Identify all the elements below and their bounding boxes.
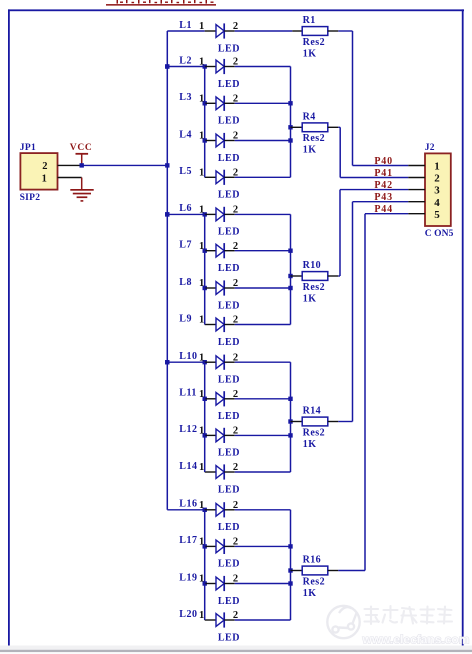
R14 pin 2 stub <box>328 421 339 423</box>
svg-text:1K: 1K <box>303 293 317 304</box>
svg-text:1K: 1K <box>303 588 317 599</box>
LED L20 symbol <box>216 614 224 627</box>
L17 pin 1 stub <box>205 545 216 547</box>
svg-text:LED: LED <box>218 79 240 90</box>
resistor R14 <box>288 202 408 450</box>
svg-text:1: 1 <box>199 94 205 105</box>
wire R14 to riser corner <box>338 421 352 423</box>
svg-text:1K: 1K <box>303 145 317 156</box>
svg-text:J2: J2 <box>425 143 435 153</box>
svg-text:1: 1 <box>199 426 205 437</box>
LED L10 row <box>165 351 240 386</box>
L19 pin 2 stub <box>224 583 235 585</box>
wire L4 cathode to bus <box>235 140 291 142</box>
svg-text:LED: LED <box>218 375 240 386</box>
LED L12 row <box>179 424 240 459</box>
L4 pin 1 stub <box>205 140 216 142</box>
wire net P42 to J2 pin 3 <box>340 189 408 191</box>
junction anode bus top L16 <box>203 508 207 512</box>
wire VCC to left bus <box>80 164 167 166</box>
L11 pin 1 stub <box>205 398 216 400</box>
junction anode bus L19 <box>203 581 207 585</box>
junction cathode bus L4 <box>288 138 292 142</box>
svg-text:2: 2 <box>42 161 48 172</box>
wire L19 cathode to bus <box>235 583 291 585</box>
svg-text:1: 1 <box>199 57 205 68</box>
wire anode bus group 1 <box>204 67 206 178</box>
wire net P44 to J2 pin 5 <box>365 213 408 215</box>
junction left bus group 2 <box>165 212 169 216</box>
svg-text:Res2: Res2 <box>303 427 326 438</box>
svg-text:4: 4 <box>434 197 440 209</box>
LED L3 symbol <box>216 97 224 110</box>
svg-text:P40: P40 <box>374 156 393 167</box>
svg-text:R1: R1 <box>303 15 316 26</box>
svg-text:1: 1 <box>199 462 205 473</box>
svg-text:R16: R16 <box>303 555 321 566</box>
L11 pin 2 stub <box>224 398 235 400</box>
junction left bus group 1 <box>165 64 169 68</box>
junction anode bus top L10 <box>203 360 207 364</box>
svg-text:1: 1 <box>199 389 205 400</box>
svg-text:LED: LED <box>218 337 240 348</box>
wire R1 riser to net P40 <box>352 31 354 166</box>
R10 pin 1 stub <box>291 275 303 277</box>
R14 pin 1 stub <box>291 421 303 423</box>
wire L3 cathode to bus <box>235 102 291 104</box>
L16 pin 1 stub <box>205 509 216 511</box>
svg-text:1: 1 <box>199 205 205 216</box>
svg-text:1: 1 <box>42 173 48 184</box>
L20 pin 2 stub <box>224 619 235 621</box>
wire L2 cathode to bus <box>235 66 291 68</box>
svg-text:L1: L1 <box>179 20 192 31</box>
wire R4 riser to net P41 <box>339 127 341 177</box>
L10 pin 2 stub <box>224 361 235 363</box>
wire anode bus group 4 <box>204 510 206 620</box>
wire L17 cathode to bus <box>235 545 291 547</box>
junction cathode bus L19 <box>288 581 292 585</box>
svg-text:1: 1 <box>199 574 205 585</box>
R16 pin 2 stub <box>328 570 339 572</box>
svg-text:1: 1 <box>199 537 205 548</box>
LED L5 row <box>179 166 240 201</box>
svg-text:1: 1 <box>199 500 205 511</box>
L19 pin 1 stub <box>205 583 216 585</box>
svg-text:1: 1 <box>199 168 205 179</box>
resistor R4 <box>288 111 408 177</box>
svg-text:2: 2 <box>434 173 440 185</box>
junction cathode bus L7 <box>288 249 292 253</box>
frame left border <box>8 9 10 646</box>
L8 pin 2 stub <box>224 287 235 289</box>
wire bus to L1 anode <box>167 30 204 32</box>
L4 pin 2 stub <box>224 140 235 142</box>
L5 pin 2 stub <box>224 176 235 178</box>
wire L6 cathode to bus <box>235 213 291 215</box>
svg-text:LED: LED <box>218 632 240 643</box>
LED L2 symbol <box>216 60 224 73</box>
junction cathode bus L11 <box>288 397 292 401</box>
watermark logo circle <box>327 606 359 638</box>
svg-text:www.elecfans.com: www.elecfans.com <box>362 633 470 647</box>
junction anode bus L3 <box>203 101 207 105</box>
svg-text:3: 3 <box>434 185 440 197</box>
wire L5 cathode to bus <box>235 176 291 178</box>
svg-text:LED: LED <box>218 300 240 311</box>
L14 pin 1 stub <box>205 471 216 473</box>
wire net P43 to J2 pin 4 <box>353 201 409 203</box>
wire L16 cathode to bus <box>235 509 291 511</box>
junction anode bus L17 <box>203 544 207 548</box>
svg-text:L11: L11 <box>179 388 197 399</box>
svg-text:1: 1 <box>199 241 205 252</box>
svg-text:LED: LED <box>218 227 240 238</box>
L7 pin 1 stub <box>205 250 216 252</box>
junction VCC/JP1 pin2 <box>80 163 84 167</box>
L8 pin 1 stub <box>205 287 216 289</box>
LED L2 row <box>165 55 240 90</box>
svg-text:P41: P41 <box>374 168 393 179</box>
svg-text:LED: LED <box>218 190 240 201</box>
svg-text:L10: L10 <box>179 351 197 362</box>
L3 pin 1 stub <box>205 102 216 104</box>
watermark chinese text strokes <box>365 606 453 624</box>
LED L14 row <box>179 461 240 496</box>
wire bus to L16 anode <box>167 509 204 511</box>
connector JP1 body <box>20 153 57 190</box>
wire cathode bus group 4 <box>290 510 292 620</box>
wire bus to L6 anode <box>167 213 204 215</box>
junction left bus L6 <box>165 212 169 216</box>
junction anode bus L8 <box>203 286 207 290</box>
svg-text:5: 5 <box>434 209 440 221</box>
JP1 pin 2 stub <box>58 164 81 166</box>
LED L8 symbol <box>216 282 224 295</box>
wire net P41 to J2 pin 2 <box>340 177 408 179</box>
title text (clipped bottom fragments) <box>117 0 214 4</box>
svg-text:LED: LED <box>218 43 240 54</box>
svg-text:P44: P44 <box>374 204 393 215</box>
svg-text:1: 1 <box>199 21 205 32</box>
resistor R10 <box>288 190 408 305</box>
wire bus to L10 anode <box>167 361 204 363</box>
VCC stem <box>81 154 83 166</box>
wire L9 cathode to bus <box>235 324 291 326</box>
L2 pin 2 stub <box>224 66 235 68</box>
wire L10 cathode to bus <box>235 361 291 363</box>
L3 pin 2 stub <box>224 102 235 104</box>
JP1 pin 1 stub <box>58 177 82 179</box>
svg-text:SIP2: SIP2 <box>20 193 41 203</box>
svg-text:1: 1 <box>199 610 205 621</box>
wire net P40 to J2 pin 1 <box>353 165 409 167</box>
L16 pin 2 stub <box>224 509 235 511</box>
wire L11 cathode to bus <box>235 398 291 400</box>
R10 pin 2 stub <box>328 275 339 277</box>
wire cathode bus group 3 <box>290 362 292 472</box>
svg-text:1K: 1K <box>303 439 317 450</box>
R1 pin 1 stub <box>292 30 302 32</box>
svg-text:L5: L5 <box>179 166 192 177</box>
svg-text:1: 1 <box>199 131 205 142</box>
junction left bus L2 <box>165 64 169 68</box>
junction anode bus L4 <box>203 138 207 142</box>
svg-text:LED: LED <box>218 411 240 422</box>
junction anode bus top L6 <box>203 212 207 216</box>
LED L8 row <box>179 277 240 312</box>
resistor R1 <box>235 15 409 165</box>
LED L9 symbol <box>216 318 224 331</box>
ground stem <box>81 178 83 190</box>
LED L1 symbol <box>216 25 224 38</box>
svg-text:JP1: JP1 <box>20 143 36 153</box>
LED L1 row <box>167 20 240 55</box>
svg-text:R10: R10 <box>303 260 321 271</box>
LED L11 symbol <box>216 392 224 405</box>
LED L9 row <box>179 313 240 348</box>
junction left bus L10 <box>165 360 169 364</box>
R4 pin 1 stub <box>291 126 303 128</box>
wire bus to L2 anode <box>167 66 204 68</box>
L17 pin 2 stub <box>224 545 235 547</box>
junction anode bus L11 <box>203 397 207 401</box>
frame right border <box>462 9 464 648</box>
wire R16 to riser corner <box>338 570 365 572</box>
svg-text:Res2: Res2 <box>303 576 326 587</box>
svg-text:P42: P42 <box>374 180 393 191</box>
LED L6 symbol <box>216 208 224 221</box>
L1 pin 1 stub <box>205 30 216 32</box>
svg-text:L16: L16 <box>179 499 197 510</box>
svg-text:L8: L8 <box>179 277 192 288</box>
wire anode bus group 2 <box>204 214 206 324</box>
svg-text:L19: L19 <box>179 572 197 583</box>
L1 pin 2 stub <box>224 30 235 32</box>
LED L7 symbol <box>216 244 224 257</box>
svg-text:1: 1 <box>199 315 205 326</box>
svg-text:L14: L14 <box>179 461 197 472</box>
svg-text:L7: L7 <box>179 240 192 251</box>
wire R10 to riser corner <box>338 275 340 277</box>
wire R14 riser to net P43 <box>352 202 354 422</box>
LED L5 symbol <box>216 171 224 184</box>
LED L7 row <box>179 240 240 275</box>
resistor R16 <box>288 214 408 599</box>
J2 pin 1 stub <box>408 165 425 167</box>
svg-text:L9: L9 <box>179 313 192 324</box>
svg-text:1: 1 <box>199 278 205 289</box>
junction left bus / VCC feed <box>165 163 169 167</box>
R16 pin 1 stub <box>291 570 303 572</box>
svg-text:1K: 1K <box>303 48 317 59</box>
junction left bus group 3 <box>165 360 169 364</box>
title underline <box>106 4 216 6</box>
R4 pin 2 stub <box>328 126 339 128</box>
L12 pin 2 stub <box>224 434 235 436</box>
wire R16 riser to net P44 <box>364 214 366 571</box>
svg-text:LED: LED <box>218 522 240 533</box>
LED L4 row <box>179 129 240 164</box>
VCC bar <box>76 153 89 155</box>
junction cathode bus to R4 <box>288 125 292 129</box>
junction cathode bus L17 <box>288 544 292 548</box>
svg-text:Res2: Res2 <box>303 133 326 144</box>
LED L11 row <box>179 388 240 423</box>
svg-text:C ON5: C ON5 <box>425 229 454 239</box>
L9 pin 1 stub <box>205 324 216 326</box>
wire R10 riser to net P42 <box>339 190 341 276</box>
LED L4 symbol <box>216 134 224 147</box>
svg-text:L6: L6 <box>179 203 192 214</box>
frame top border <box>8 9 464 11</box>
junction cathode bus L3 <box>288 101 292 105</box>
svg-text:Res2: Res2 <box>303 37 326 48</box>
L12 pin 1 stub <box>205 434 216 436</box>
wire anode bus group 3 <box>204 362 206 472</box>
J2 pin 3 stub <box>408 189 425 191</box>
svg-text:R14: R14 <box>303 406 321 417</box>
wire R4 to riser corner <box>338 126 340 128</box>
LED L14 symbol <box>216 466 224 479</box>
LED L17 symbol <box>216 540 224 553</box>
wire L20 cathode to bus <box>235 619 291 621</box>
svg-text:LED: LED <box>218 484 240 495</box>
LED L17 row <box>179 535 240 570</box>
wire L12 cathode to bus <box>235 434 291 436</box>
R1 pin 2 stub <box>328 30 339 32</box>
junction anode bus L12 <box>203 433 207 437</box>
junction anode bus L7 <box>203 249 207 253</box>
LED L16 row <box>167 499 240 533</box>
LED L20 row <box>179 609 240 644</box>
J2 pin 4 stub <box>408 201 425 203</box>
svg-text:LED: LED <box>218 263 240 274</box>
wire cathode bus group 1 <box>290 67 292 178</box>
svg-text:1: 1 <box>199 352 205 363</box>
svg-text:VCC: VCC <box>70 143 93 153</box>
junction cathode bus L12 <box>288 433 292 437</box>
LED L16 symbol <box>216 503 224 516</box>
junction cathode bus to R16 <box>288 568 292 572</box>
svg-text:L2: L2 <box>179 55 192 66</box>
LED L6 row <box>165 203 240 238</box>
svg-text:LED: LED <box>218 559 240 570</box>
wire L7 cathode to bus <box>235 250 291 252</box>
LED L3 row <box>179 92 240 127</box>
junction cathode bus to R10 <box>288 274 292 278</box>
svg-text:Res2: Res2 <box>303 282 326 293</box>
svg-text:LED: LED <box>218 596 240 607</box>
svg-text:P43: P43 <box>374 192 393 203</box>
wire left VCC bus <box>166 31 168 510</box>
L9 pin 2 stub <box>224 324 235 326</box>
L7 pin 2 stub <box>224 250 235 252</box>
wire L1 cathode to R1 <box>235 30 293 32</box>
wire R1 to riser corner <box>338 30 352 32</box>
svg-text:LED: LED <box>218 153 240 164</box>
L2 pin 1 stub <box>205 66 216 68</box>
svg-text:LED: LED <box>218 116 240 127</box>
L10 pin 1 stub <box>205 361 216 363</box>
LED L19 symbol <box>216 577 224 590</box>
L6 pin 2 stub <box>224 213 235 215</box>
LED L12 symbol <box>216 429 224 442</box>
L5 pin 1 stub <box>205 176 216 178</box>
LED L19 row <box>179 572 240 607</box>
svg-text:L4: L4 <box>179 129 192 140</box>
junction anode bus top L2 <box>203 64 207 68</box>
L20 pin 1 stub <box>205 619 216 621</box>
ground bars <box>70 189 93 202</box>
L14 pin 2 stub <box>224 471 235 473</box>
svg-text:L3: L3 <box>179 92 192 103</box>
wire L8 cathode to bus <box>235 287 291 289</box>
bottom edge strip <box>0 646 472 651</box>
svg-text:1: 1 <box>434 161 440 173</box>
svg-text:L12: L12 <box>179 424 197 435</box>
J2 pin 2 stub <box>408 177 425 179</box>
L6 pin 1 stub <box>205 213 216 215</box>
svg-text:L20: L20 <box>179 609 197 620</box>
wire L14 cathode to bus <box>235 471 291 473</box>
LED L10 symbol <box>216 356 224 369</box>
J2 pin 5 stub <box>408 213 425 215</box>
svg-text:R4: R4 <box>303 111 316 122</box>
junction cathode bus L8 <box>288 286 292 290</box>
junction cathode bus to R14 <box>288 419 292 423</box>
wire cathode bus group 2 <box>290 214 292 324</box>
connector J2 body <box>425 153 451 226</box>
svg-text:LED: LED <box>218 448 240 459</box>
svg-text:L17: L17 <box>179 535 197 546</box>
